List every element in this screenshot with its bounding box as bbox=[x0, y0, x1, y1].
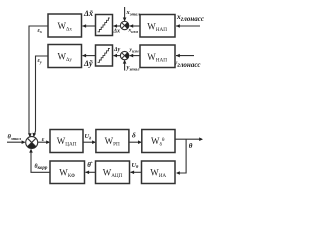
block W_dx bbox=[48, 14, 82, 37]
summing junction J1 bbox=[120, 21, 128, 29]
svg-text:Uд: Uд bbox=[85, 133, 92, 140]
wire x_etal vertical into junction J1 bbox=[124, 7, 126, 21]
svg-text:yглонасс: yглонасс bbox=[173, 58, 201, 69]
wire W_dx output going left and down to main junction bbox=[29, 26, 48, 136]
svg-text:yэтал: yэтал bbox=[126, 64, 141, 72]
wire W_CAP to W_RP bbox=[83, 141, 95, 143]
svg-text:Δx: Δx bbox=[113, 28, 121, 34]
summing junction JM bbox=[26, 137, 38, 149]
quantizer block NL2 bbox=[96, 45, 113, 66]
wire y_etal vertical into J2 from below bbox=[124, 61, 126, 71]
svg-text:Δỹ: Δỹ bbox=[83, 59, 93, 68]
wire W_RP to W_delta bbox=[129, 141, 141, 143]
wire J2 to NL2 bbox=[114, 55, 121, 57]
svg-text:xэтал: xэтал bbox=[126, 9, 141, 17]
svg-text:θэтал: θэтал bbox=[8, 133, 22, 141]
wire W_NAP2 to J2 bbox=[130, 55, 140, 57]
svg-text:θ: θ bbox=[189, 142, 193, 150]
quantizer block NL1 bbox=[96, 15, 113, 36]
wire W_dy output going left and down to main junction bbox=[34, 56, 48, 136]
svg-text:xглонасс: xглонасс bbox=[176, 12, 204, 23]
svg-text:Δy: Δy bbox=[113, 47, 121, 53]
wire J1 to NL1 bbox=[114, 25, 121, 27]
wire W_NAP1 to J1 bbox=[130, 25, 140, 27]
svg-text:θ̂: θ̂ bbox=[87, 161, 93, 169]
wire W_delta output theta bbox=[175, 138, 202, 140]
wire NL2 to W_dy bbox=[83, 55, 96, 57]
wire theta_etal input to main junction bbox=[7, 141, 25, 143]
svg-text:Uθ: Uθ bbox=[132, 162, 139, 169]
svg-text:Δx̃: Δx̃ bbox=[83, 9, 94, 18]
svg-text:yизм: yизм bbox=[129, 47, 139, 53]
block W_CAP bbox=[50, 130, 83, 153]
block W_NAP2 bbox=[140, 45, 175, 68]
svg-text:εx: εx bbox=[38, 28, 42, 34]
block W_delta_theta bbox=[142, 130, 175, 153]
block W_dy bbox=[48, 45, 82, 68]
block W_RP bbox=[96, 130, 129, 153]
block W_NAP1 bbox=[140, 15, 175, 38]
wire x_glonass input to W_NAP1 bbox=[176, 25, 200, 27]
svg-text:xизм: xизм bbox=[128, 28, 139, 34]
svg-text:εy: εy bbox=[38, 58, 42, 64]
svg-text:ε: ε bbox=[42, 136, 45, 143]
block W_ACP bbox=[96, 161, 130, 184]
block W_KF bbox=[50, 161, 85, 184]
wire W_ACP to W_KF bbox=[86, 171, 96, 173]
wire W_IA to W_ACP bbox=[131, 171, 142, 173]
block W_IA bbox=[142, 161, 176, 184]
wire y_glonass input to W_NAP2 bbox=[176, 55, 194, 57]
wire branch down to W_IA bbox=[177, 139, 186, 173]
svg-text:δ: δ bbox=[132, 131, 136, 140]
wire NL1 to W_dx bbox=[83, 25, 96, 27]
summing junction J2 bbox=[120, 51, 128, 59]
wire W_KF output left and up into JM bottom bbox=[31, 150, 50, 173]
wire JM output to W_CAP bbox=[38, 141, 49, 143]
svg-text:θкорр: θкорр bbox=[35, 164, 48, 171]
